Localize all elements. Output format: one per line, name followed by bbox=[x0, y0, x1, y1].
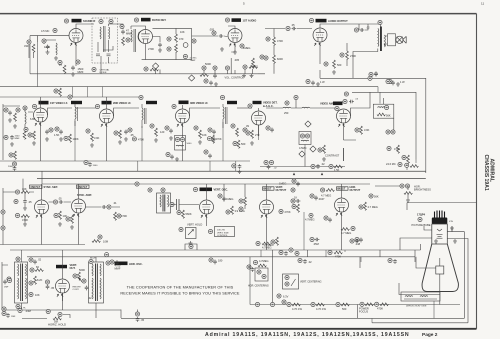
ground bbox=[13, 124, 17, 128]
svg-text:1MF: 1MF bbox=[4, 287, 9, 289]
ref 24 bbox=[286, 26, 290, 30]
ground bbox=[189, 241, 193, 245]
volume control pot bbox=[202, 66, 206, 70]
svg-text:4.7K 1W: 4.7K 1W bbox=[292, 307, 302, 311]
ground bbox=[434, 239, 438, 243]
core L6 bbox=[226, 107, 228, 124]
svg-text:120K: 120K bbox=[44, 45, 50, 49]
capacitor C43 bbox=[213, 260, 217, 265]
bottom resistor row r3 bbox=[336, 302, 350, 311]
ground bbox=[8, 118, 12, 122]
ref 56 bbox=[246, 131, 250, 135]
wire det box bbox=[176, 28, 192, 59]
wire V2 plate up bbox=[131, 26, 146, 30]
agc bottom cluster bbox=[405, 160, 419, 171]
ref 38 bbox=[68, 95, 72, 99]
ref 44 bbox=[139, 95, 143, 99]
wire to V3 grid bbox=[192, 35, 228, 38]
ground bbox=[322, 157, 326, 161]
second left circled bbox=[7, 278, 11, 282]
ref 104 bbox=[291, 199, 295, 203]
bus row3 top bbox=[42, 183, 370, 185]
hor centering cluster: ref 133 bbox=[247, 265, 251, 269]
svg-text:.05: .05 bbox=[51, 286, 55, 290]
svg-text:1MF: 1MF bbox=[11, 316, 16, 318]
peaking coil L7 bbox=[283, 106, 291, 109]
capacitor C14 bbox=[124, 130, 128, 135]
ref 100 bbox=[239, 199, 243, 203]
box hor centering bbox=[255, 268, 268, 281]
ground bbox=[45, 137, 49, 141]
ref 145 bbox=[350, 239, 354, 243]
ref 82 bbox=[15, 190, 19, 194]
ref 103 bbox=[321, 188, 325, 192]
contrast pot bbox=[318, 148, 322, 152]
capacitor C44 bbox=[355, 239, 360, 243]
wire to V11 bbox=[49, 201, 72, 203]
resistor R12 560 bbox=[333, 60, 336, 68]
resistor R2 bbox=[63, 65, 66, 73]
capacitor C3 47mmf bbox=[121, 30, 125, 35]
wire grid V1 bbox=[30, 36, 69, 42]
wire V12 bbox=[206, 184, 208, 226]
ref 86 bbox=[54, 213, 58, 217]
yoke wire bottom bbox=[399, 283, 440, 295]
ref 111 bbox=[324, 216, 328, 220]
resistor R46 bbox=[258, 264, 266, 267]
svg-text:RECEIVER MAKES IT POSSIBLE TO: RECEIVER MAKES IT POSSIBLE TO BRING YOU … bbox=[120, 291, 239, 296]
CRT base cap bbox=[432, 218, 448, 225]
resistor R42 bbox=[35, 269, 43, 272]
row2 bottom hanging parts: ref 72 bbox=[9, 153, 13, 157]
ref 54 bbox=[243, 128, 247, 132]
resistor R39 bbox=[341, 228, 349, 231]
ref 95 bbox=[179, 227, 183, 231]
capacitor C38 bbox=[85, 286, 89, 291]
ref 122 bbox=[30, 268, 34, 272]
capacitor C39 bbox=[115, 260, 119, 265]
4.5MC trap box bbox=[299, 132, 311, 145]
CRT grid marks bbox=[437, 229, 443, 238]
svg-text:CONT.: CONT. bbox=[73, 289, 80, 291]
ground bbox=[250, 74, 254, 78]
svg-text:250: 250 bbox=[284, 111, 289, 115]
T1 trimmer caps bbox=[96, 40, 113, 56]
tag 6W4GT vertical out bbox=[56, 265, 67, 269]
ref 97 bbox=[218, 194, 222, 198]
diamond J1 bbox=[152, 63, 158, 69]
resistor R20 bbox=[251, 130, 254, 138]
ref 50 bbox=[194, 126, 198, 130]
vert size box bbox=[215, 227, 235, 237]
wire hor pot bbox=[375, 186, 408, 198]
wire V2 out bbox=[142, 28, 192, 59]
resistor R17 bbox=[155, 128, 158, 136]
tag half 6K6GT vert out bbox=[263, 187, 275, 191]
svg-text:.0047: .0047 bbox=[318, 197, 325, 201]
svg-text:.05: .05 bbox=[291, 23, 295, 27]
ref 141 bbox=[189, 244, 193, 248]
svg-text:THE COOPERATION OF THE MANUFAC: THE COOPERATION OF THE MANUFACTURER OF T… bbox=[127, 284, 234, 289]
capacitor C1 bbox=[46, 45, 50, 50]
svg-text:4.7K: 4.7K bbox=[21, 307, 26, 309]
ref 89 bbox=[117, 214, 121, 218]
tag 6AU6 bbox=[39, 101, 49, 105]
capacitor C31 bbox=[296, 199, 301, 203]
ref 127 bbox=[89, 259, 93, 263]
capacitor C25 .05 bbox=[23, 199, 27, 204]
core T2 bbox=[134, 29, 136, 52]
svg-text:470K: 470K bbox=[121, 214, 127, 218]
ground bbox=[158, 48, 162, 52]
svg-text:MMF: MMF bbox=[78, 70, 84, 74]
ground bbox=[450, 226, 454, 230]
tube V4 6K6GT audio output bbox=[313, 28, 327, 42]
resistor R36 bbox=[244, 197, 247, 205]
wire input net bbox=[29, 40, 56, 58]
below-bus verticals bbox=[138, 125, 305, 171]
svg-text:180: 180 bbox=[218, 259, 223, 263]
wire V3 plate bbox=[231, 43, 235, 52]
ref 51 bbox=[208, 128, 212, 132]
ref 25 bbox=[309, 18, 313, 22]
ref on audio bus bbox=[368, 76, 372, 80]
ref 53 bbox=[231, 124, 235, 128]
ground bbox=[70, 225, 74, 229]
heater arrows V12 bbox=[201, 215, 207, 218]
ref 74 bbox=[204, 150, 208, 154]
wire T5 bottom bbox=[2, 293, 121, 310]
wire T1 secondary to det bbox=[109, 24, 124, 29]
svg-text:.02: .02 bbox=[321, 162, 325, 166]
wire L5 bbox=[141, 104, 143, 128]
svg-text:1500: 1500 bbox=[15, 136, 21, 138]
wire C40 bbox=[121, 310, 138, 319]
ref 45 bbox=[150, 124, 154, 128]
capacitor C20 bbox=[208, 154, 212, 159]
svg-text:CONTRAST: CONTRAST bbox=[325, 154, 340, 158]
svg-text:1.5K: 1.5K bbox=[54, 133, 60, 137]
T5 right coil bbox=[25, 264, 26, 299]
speaker voice coil bbox=[388, 34, 396, 46]
wire V5 screen bbox=[40, 97, 42, 161]
tag 23.4MC bbox=[71, 101, 82, 104]
svg-text:3.9K: 3.9K bbox=[94, 136, 100, 140]
bottom resistor row r2 bbox=[311, 302, 327, 311]
ref 117 bbox=[405, 184, 409, 188]
coil L6 bbox=[223, 107, 224, 119]
cap hanging from audio bus bbox=[374, 72, 378, 77]
ref 144 bbox=[256, 241, 260, 245]
tube V13 vert output bbox=[260, 200, 274, 214]
ref 115 bbox=[355, 237, 359, 241]
capacitor C37 .05 bbox=[46, 285, 50, 290]
resistor R19 bbox=[236, 128, 239, 136]
ref 129 bbox=[82, 279, 86, 283]
capacitor C4 bbox=[158, 43, 162, 48]
left rail refs row3 bbox=[1, 210, 5, 230]
ref 21 bbox=[260, 55, 264, 59]
bottomleft pair refs bbox=[2, 307, 16, 318]
wire right of V11 bbox=[86, 206, 121, 208]
ref 43 bbox=[128, 128, 132, 132]
wire plate V1 bbox=[76, 24, 94, 29]
svg-text:BRIGHTNESS: BRIGHTNESS bbox=[414, 188, 431, 192]
T4 core bbox=[163, 195, 165, 212]
wire vol drops bbox=[204, 58, 253, 74]
T5 core bbox=[21, 264, 23, 302]
bus bottom long bbox=[121, 317, 464, 319]
ref 119 bbox=[7, 277, 11, 281]
T3 primary bbox=[378, 29, 379, 47]
resistor R45 horiz hold bbox=[53, 317, 61, 320]
heater arrows V1 bbox=[70, 43, 76, 46]
ref 105 bbox=[292, 204, 296, 208]
transformer T1 sound IF can bbox=[92, 18, 118, 63]
ref 40 bbox=[86, 129, 90, 133]
resistor R32 bbox=[114, 212, 117, 220]
svg-text:HOR. OSC.: HOR. OSC. bbox=[129, 262, 143, 266]
ref extra b4 bbox=[388, 258, 397, 264]
CRT left wires bbox=[400, 203, 432, 250]
resistor R6 bbox=[150, 68, 158, 71]
ref 68 bbox=[391, 130, 395, 134]
svg-text:10K 2W: 10K 2W bbox=[217, 230, 226, 232]
T4 coil 2 bbox=[168, 195, 169, 207]
wire V15 bbox=[62, 257, 64, 301]
wire B+ into coil box bbox=[378, 87, 380, 104]
svg-text:8200: 8200 bbox=[277, 57, 283, 61]
ground bbox=[32, 141, 36, 145]
wire horiz hold bbox=[22, 315, 70, 319]
svg-text:MMF: MMF bbox=[115, 266, 121, 270]
wire mid drops bbox=[224, 184, 245, 209]
tag 21.8MC bbox=[227, 101, 237, 104]
peaking coil L8 bbox=[302, 106, 310, 109]
svg-text:56K: 56K bbox=[386, 114, 391, 118]
svg-text:.005: .005 bbox=[234, 58, 240, 62]
frame right border bbox=[476, 14, 478, 329]
capacitor C36 bbox=[3, 280, 7, 285]
ref on bus 256 bbox=[105, 253, 109, 257]
resistor R10 8200 bbox=[273, 55, 276, 63]
capacitor C32 bbox=[314, 196, 318, 201]
wire V14 bbox=[341, 184, 343, 250]
diamond J4 bbox=[305, 121, 311, 127]
hor drive refs: ref 116 bbox=[400, 184, 404, 188]
ref 139 bbox=[277, 294, 281, 298]
coil box L9 bbox=[373, 104, 394, 118]
wire L9 net bbox=[384, 98, 394, 130]
resistor R13 bbox=[14, 113, 17, 121]
heater arrows V10 bbox=[36, 215, 42, 218]
ref 102 bbox=[292, 179, 296, 183]
ref 33 bbox=[16, 108, 20, 112]
ref extra b3 bbox=[328, 250, 343, 258]
ref 13 bbox=[167, 47, 171, 51]
svg-text:4.7MEG: 4.7MEG bbox=[262, 246, 272, 250]
ground bbox=[198, 140, 202, 144]
capacitor C22 bbox=[209, 81, 213, 86]
ref 5 bbox=[58, 60, 62, 64]
ground bbox=[238, 170, 242, 174]
svg-text:560K: 560K bbox=[79, 268, 85, 272]
T1 primary coil bbox=[100, 27, 101, 39]
svg-text:4.5 MC: 4.5 MC bbox=[190, 58, 197, 60]
ground bbox=[332, 70, 336, 74]
vert output transformer T5 bbox=[15, 262, 28, 303]
capacitor C24 bbox=[391, 81, 395, 86]
svg-text:470: 470 bbox=[179, 37, 184, 41]
vertical drop right bbox=[371, 318, 373, 322]
ref 60 bbox=[335, 106, 339, 110]
core L4 bbox=[77, 107, 79, 121]
heater arrows V9 bbox=[338, 124, 344, 127]
ref 84 bbox=[15, 213, 19, 217]
ref 20b bbox=[243, 65, 247, 69]
T5 left coil bbox=[18, 264, 19, 299]
tag 6AL5 bbox=[253, 101, 262, 104]
tag 21.25MC bbox=[146, 101, 157, 104]
wire plate V5 bbox=[48, 108, 73, 115]
capacitor C35 bbox=[359, 238, 363, 243]
heater arrows V13 bbox=[261, 215, 267, 218]
svg-text:DIODE: DIODE bbox=[100, 72, 107, 74]
vert hold pot box bbox=[186, 228, 197, 239]
ref 110 bbox=[369, 194, 373, 198]
junction stub bbox=[209, 161, 211, 171]
diamond J5 bbox=[310, 146, 316, 152]
T4 coil 1 bbox=[160, 195, 161, 207]
wire right bottom drops bbox=[308, 250, 416, 318]
svg-text:4.7 MEG: 4.7 MEG bbox=[368, 205, 378, 209]
resistor R34 bbox=[182, 210, 185, 218]
ref 20 bbox=[225, 66, 229, 70]
capacitor C76 bbox=[238, 164, 242, 169]
B plus arrowheads row3 bbox=[293, 173, 323, 176]
ref 77 bbox=[311, 164, 315, 168]
resistor R8 5meg bbox=[252, 58, 255, 66]
svg-text:10K: 10K bbox=[202, 133, 207, 137]
heater arrows V6 bbox=[101, 124, 107, 127]
svg-text:470K: 470K bbox=[335, 255, 341, 259]
svg-text:11: 11 bbox=[481, 2, 484, 6]
ref 39 bbox=[55, 127, 59, 131]
CRT anode square bbox=[436, 266, 444, 274]
T6 right coil bbox=[100, 264, 101, 299]
wire V9 down bbox=[344, 92, 371, 161]
ground bbox=[214, 82, 218, 86]
svg-text:.05: .05 bbox=[130, 133, 134, 137]
svg-text:4.7MEG: 4.7MEG bbox=[305, 218, 315, 222]
svg-text:.02: .02 bbox=[38, 258, 42, 262]
wire to V5 grid bbox=[25, 109, 33, 130]
wire V13 bbox=[266, 184, 268, 250]
resistor R1 bbox=[32, 44, 35, 52]
svg-text:FOCUS: FOCUS bbox=[359, 310, 368, 314]
svg-text:VIDEO AMP.: VIDEO AMP. bbox=[320, 102, 335, 106]
ref 64 bbox=[343, 99, 347, 103]
tube V11 sync amp bbox=[72, 199, 86, 213]
drop wires row34 bbox=[261, 250, 361, 262]
wire plate V6 bbox=[114, 108, 140, 116]
ref 140 bbox=[282, 300, 286, 304]
T6 left coil bbox=[92, 264, 93, 299]
bus divider 2 bbox=[37, 178, 426, 180]
ground bbox=[242, 74, 246, 78]
bottom row extra ref2 bbox=[270, 302, 274, 306]
tube V3 6SQ7 1st audio bbox=[228, 29, 242, 43]
tube V15 bbox=[56, 279, 70, 293]
resistor R30 bbox=[59, 211, 62, 219]
svg-text:10K: 10K bbox=[35, 293, 40, 297]
ref extra b2 bbox=[298, 258, 312, 264]
resistor R24 bbox=[397, 145, 400, 153]
capacitor C11 bbox=[8, 111, 12, 116]
ref 17 bbox=[225, 18, 229, 22]
ref 107 bbox=[310, 194, 314, 198]
ref 136 bbox=[262, 274, 266, 278]
resistor R7 vol bbox=[200, 74, 208, 77]
ref 96 bbox=[193, 187, 197, 191]
ref 27 bbox=[324, 62, 328, 66]
T1 secondary coil bbox=[109, 27, 110, 39]
coil trap bbox=[301, 139, 309, 142]
grid cap wire V3 bbox=[228, 26, 235, 29]
wire centering bbox=[272, 250, 274, 305]
bus crt top bbox=[407, 202, 477, 204]
frame top border bbox=[0, 13, 477, 15]
svg-text:VERT. SIZE: VERT. SIZE bbox=[217, 232, 229, 234]
svg-text:VERT. OSC.: VERT. OSC. bbox=[214, 188, 229, 192]
ref 118 bbox=[418, 217, 422, 221]
ref 18 bbox=[240, 44, 244, 48]
svg-text:17QP4: 17QP4 bbox=[417, 213, 426, 217]
svg-text:2ND VIDEO I.F.: 2ND VIDEO I.F. bbox=[113, 101, 131, 105]
bus row3 bottom 1 bbox=[10, 249, 421, 251]
svg-text:AUDIO OUTPUT: AUDIO OUTPUT bbox=[328, 19, 348, 23]
ref 143 bbox=[209, 258, 213, 262]
bus audio output bbox=[320, 77, 426, 79]
frame bottom border bbox=[0, 328, 477, 330]
ground bbox=[58, 222, 62, 226]
ref 30 bbox=[388, 79, 392, 83]
bus hanging cluster 1 bbox=[8, 162, 17, 171]
wire to V2 bbox=[131, 26, 139, 33]
resistor R28 10K bbox=[21, 191, 29, 194]
wire audio takeoff bbox=[156, 68, 160, 74]
ref 48 bbox=[175, 137, 179, 141]
wire right area verticals bbox=[415, 244, 421, 257]
ref 80 bbox=[306, 79, 310, 83]
ground bbox=[175, 157, 179, 161]
ref 137 bbox=[285, 275, 289, 279]
ref 15 bbox=[144, 67, 148, 71]
ground bbox=[250, 141, 254, 145]
wire V4 plate to T3 bbox=[320, 24, 381, 78]
svg-text:.05: .05 bbox=[141, 318, 145, 322]
ref 65 bbox=[385, 105, 389, 109]
svg-text:4.5MC: 4.5MC bbox=[299, 146, 307, 150]
svg-text:6.8K: 6.8K bbox=[30, 117, 36, 121]
svg-text:6SN7GT: 6SN7GT bbox=[31, 186, 41, 189]
ref 28 bbox=[354, 28, 358, 32]
coil L3 bbox=[25, 112, 26, 124]
svg-text:.05: .05 bbox=[58, 197, 62, 201]
hor output transformer T6 bbox=[89, 262, 104, 303]
svg-text:330: 330 bbox=[24, 44, 29, 48]
tube V8 6AL5 video det bbox=[252, 111, 266, 125]
